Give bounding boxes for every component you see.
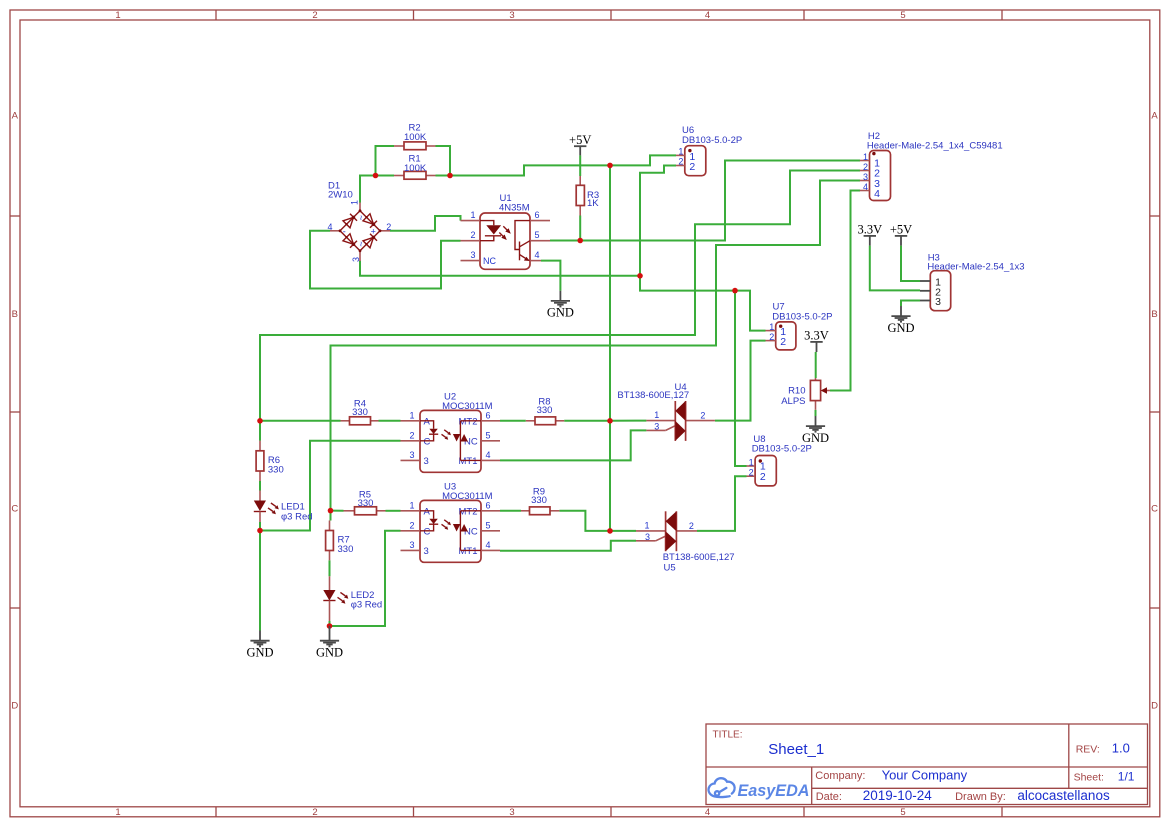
svg-text:1: 1 xyxy=(678,147,683,157)
wire U3 pin6 to R9 xyxy=(500,510,521,512)
svg-text:2W10: 2W10 xyxy=(328,190,353,201)
wire U3 pin4 to U5 gate xyxy=(500,541,636,551)
svg-text:1: 1 xyxy=(350,200,360,205)
net flag +5V (H3) xyxy=(890,223,912,246)
wire node to U5 pin1 xyxy=(610,530,636,532)
svg-text:2: 2 xyxy=(700,411,705,421)
potentiometer R10 ALPS xyxy=(781,378,830,410)
wire node to U4 pin1 xyxy=(610,420,646,422)
svg-text:330: 330 xyxy=(358,498,374,509)
wire R6 to LED1 xyxy=(259,481,261,491)
resistor R1 100K xyxy=(394,154,436,180)
wire LED2 cathode to node xyxy=(329,621,331,626)
svg-text:D: D xyxy=(11,701,18,712)
svg-text:B: B xyxy=(1151,309,1157,320)
wire H2 pin3 to left bus x=330.5 xyxy=(331,181,861,521)
wire R3 bottom to node xyxy=(579,216,581,241)
svg-text:ALPS: ALPS xyxy=(781,396,805,407)
bridge rectifier D1 2W10 xyxy=(327,180,391,262)
resistor R4 330 xyxy=(341,399,379,425)
wire node to R4 left xyxy=(260,420,341,422)
svg-text:φ3 Red: φ3 Red xyxy=(351,600,383,611)
header H3 Header-Male-2.54_1x3 xyxy=(920,252,1025,310)
svg-text:3: 3 xyxy=(424,456,429,467)
net flag 3.3V (R10) xyxy=(804,329,829,353)
svg-text:+5V: +5V xyxy=(890,223,912,237)
triac U5 BT138-600E,127 xyxy=(636,511,735,573)
svg-text:D: D xyxy=(1151,701,1158,712)
svg-text:Drawn By:: Drawn By: xyxy=(955,791,1006,803)
svg-text:φ3 Red: φ3 Red xyxy=(281,511,313,522)
svg-text:B: B xyxy=(12,309,18,320)
svg-text:100K: 100K xyxy=(404,132,427,143)
resistor R7 330 xyxy=(326,521,354,561)
svg-text:2: 2 xyxy=(689,161,695,173)
svg-text:3: 3 xyxy=(409,450,414,460)
svg-text:1: 1 xyxy=(749,457,754,467)
svg-text:2: 2 xyxy=(409,430,414,440)
svg-text:GND: GND xyxy=(246,646,273,660)
node D1 pin3 / U6 pin2 xyxy=(637,273,643,279)
EasyEDA logo xyxy=(709,778,810,800)
net flag +5V (R3) xyxy=(569,133,591,155)
header H2 Header-Male-2.54_1x4_C59481 xyxy=(860,131,1003,201)
svg-text:GND: GND xyxy=(887,321,914,335)
svg-text:2: 2 xyxy=(470,230,475,240)
svg-text:2: 2 xyxy=(312,807,317,818)
svg-text:BT138-600E,127: BT138-600E,127 xyxy=(617,390,689,401)
svg-text:3.3V: 3.3V xyxy=(804,329,829,343)
svg-text:330: 330 xyxy=(537,405,553,416)
optocoupler U3 MOC3011M xyxy=(401,482,501,563)
wire R4 right to U2 pin1 xyxy=(379,420,401,422)
svg-text:2: 2 xyxy=(769,332,774,342)
svg-text:5: 5 xyxy=(486,430,491,440)
node R3 / U1 pin5 xyxy=(577,238,583,244)
wire U1 pin4 to GND xyxy=(541,261,560,291)
svg-text:+: + xyxy=(371,226,376,236)
wire D1 pin3 to node xyxy=(360,261,640,276)
svg-text:MT1: MT1 xyxy=(459,456,478,467)
wire R5 right to U3 pin1 xyxy=(386,510,401,512)
svg-text:EasyEDA: EasyEDA xyxy=(738,782,810,800)
svg-text:1: 1 xyxy=(769,322,774,332)
svg-text:+5V: +5V xyxy=(569,133,591,147)
wire R9 to bus node xyxy=(559,511,610,531)
optocoupler U1 4N35M xyxy=(461,193,551,269)
node LED1 cathode xyxy=(257,528,263,534)
svg-text:330: 330 xyxy=(338,544,354,555)
svg-text:3: 3 xyxy=(645,532,650,542)
svg-text:MT1: MT1 xyxy=(459,546,478,557)
node R1-R2 right xyxy=(447,173,453,179)
wire R8 to bus node xyxy=(564,420,610,422)
resistor R6 330 xyxy=(256,441,284,481)
svg-text:3: 3 xyxy=(351,257,361,262)
ground GND (U1) xyxy=(547,291,574,320)
svg-text:GND: GND xyxy=(316,646,343,660)
svg-text:3: 3 xyxy=(935,296,941,308)
svg-text:DB103-5.0-2P: DB103-5.0-2P xyxy=(772,311,832,322)
svg-text:A: A xyxy=(1151,111,1158,122)
wire U2 pin6 to R8 xyxy=(500,420,526,422)
wire 3.3V flag to R10 top xyxy=(815,352,817,378)
wire U6 pin2 down to U7/U8 branch xyxy=(640,166,766,331)
wire node to U8 pin1 xyxy=(735,291,747,466)
svg-text:A: A xyxy=(12,111,19,122)
node R9 / U5 pin1 xyxy=(607,528,613,534)
svg-text:5: 5 xyxy=(486,520,491,530)
svg-text:4: 4 xyxy=(874,188,880,200)
svg-text:NC: NC xyxy=(483,256,496,266)
svg-text:2: 2 xyxy=(689,521,694,531)
svg-text:3: 3 xyxy=(409,540,414,550)
svg-text:C: C xyxy=(1151,504,1158,515)
svg-text:4N35M: 4N35M xyxy=(499,203,530,214)
svg-text:2: 2 xyxy=(863,162,868,172)
svg-text:3: 3 xyxy=(863,172,868,182)
wire U3 pin2 to LED2 cathode node xyxy=(330,531,401,626)
svg-text:1K: 1K xyxy=(587,198,599,209)
wire 3.3V flag to H3 pin2 xyxy=(870,246,920,291)
svg-text:4: 4 xyxy=(486,450,491,460)
optocoupler U2 MOC3011M xyxy=(401,392,501,473)
svg-text:C: C xyxy=(424,527,431,538)
ground GND (LED2) xyxy=(316,626,343,660)
svg-text:1: 1 xyxy=(644,521,649,531)
svg-text:330: 330 xyxy=(531,495,547,506)
svg-text:~: ~ xyxy=(356,241,366,246)
svg-text:4: 4 xyxy=(486,540,491,550)
svg-text:1: 1 xyxy=(470,210,475,220)
title block xyxy=(706,724,1148,805)
svg-text:3: 3 xyxy=(424,546,429,557)
wire U1 pin5 / R3 node to H2 pin1 xyxy=(550,161,860,241)
connector U7 DB103-5.0-2P xyxy=(766,302,833,350)
svg-text:GND: GND xyxy=(547,306,574,320)
svg-text:330: 330 xyxy=(268,464,284,475)
svg-text:alcocastellanos: alcocastellanos xyxy=(1017,788,1110,803)
wire LED1 node to GND xyxy=(259,531,261,631)
wire R10 bottom to GND xyxy=(815,410,817,416)
ground GND (R10) xyxy=(802,416,829,445)
svg-text:Sheet_1: Sheet_1 xyxy=(768,741,824,758)
svg-text:REV:: REV: xyxy=(1076,744,1100,756)
LED2 red xyxy=(323,576,382,621)
svg-text:2: 2 xyxy=(760,471,766,483)
svg-text:MT2: MT2 xyxy=(459,506,478,517)
LED1 red xyxy=(254,491,313,523)
svg-text:1: 1 xyxy=(115,10,120,21)
wire U2 pin2 to LED1 cathode node xyxy=(260,441,401,531)
svg-text:U5: U5 xyxy=(664,562,676,573)
svg-text:1: 1 xyxy=(115,807,120,818)
ground GND (LED1) xyxy=(246,631,273,660)
svg-text:2: 2 xyxy=(409,520,414,530)
svg-text:1/1: 1/1 xyxy=(1118,769,1135,783)
svg-text:1: 1 xyxy=(863,152,868,162)
svg-text:6: 6 xyxy=(486,410,491,420)
node R5 / R7 xyxy=(328,508,334,514)
node +5V rail / bus xyxy=(607,163,613,169)
wire R1 left to D1 pin1 xyxy=(360,176,394,203)
wire D1 pin2 to U1 pin1 xyxy=(390,216,461,231)
svg-text:3: 3 xyxy=(509,10,514,21)
svg-text:4: 4 xyxy=(705,807,710,818)
resistor R5 330 xyxy=(344,490,386,515)
svg-text:Header-Male-2.54_1x4_C59481: Header-Male-2.54_1x4_C59481 xyxy=(867,140,1003,151)
wire H2 pin2 to left bus x=260 xyxy=(260,171,860,441)
svg-text:2: 2 xyxy=(386,222,391,232)
svg-text:2: 2 xyxy=(312,10,317,21)
wire R2 right down to R1 right node xyxy=(436,146,451,176)
svg-text:GND: GND xyxy=(802,431,829,445)
svg-text:1: 1 xyxy=(409,500,414,510)
svg-text:2: 2 xyxy=(780,336,786,348)
JUNCTION DOTS xyxy=(257,163,738,629)
resistor R8 330 xyxy=(526,397,564,425)
svg-text:1: 1 xyxy=(654,410,659,420)
svg-text:2: 2 xyxy=(749,467,754,477)
wire U2 pin4 to U4 gate xyxy=(500,430,646,460)
wire node to R5 left xyxy=(331,510,344,512)
wire +5V flag to H3 pin1 xyxy=(901,246,920,281)
wire R7 to LED2 xyxy=(329,560,331,576)
resistor R3 1K xyxy=(576,176,599,216)
svg-text:4: 4 xyxy=(863,182,868,192)
svg-text:3.3V: 3.3V xyxy=(857,223,882,237)
resistor R9 330 xyxy=(521,487,559,515)
svg-text:1: 1 xyxy=(409,410,414,420)
svg-text:4: 4 xyxy=(705,10,710,21)
svg-text:3: 3 xyxy=(654,422,659,432)
svg-text:-: - xyxy=(343,226,346,236)
svg-text:DB103-5.0-2P: DB103-5.0-2P xyxy=(752,444,812,455)
svg-text:Date:: Date: xyxy=(816,791,842,803)
svg-text:1.0: 1.0 xyxy=(1112,741,1130,756)
resistor R2 100K xyxy=(394,123,436,150)
wire U7 pin2 to U4 pin2 xyxy=(715,341,766,421)
svg-text:6: 6 xyxy=(486,500,491,510)
svg-text:330: 330 xyxy=(352,407,368,418)
svg-text:A: A xyxy=(424,417,431,428)
svg-text:Company:: Company: xyxy=(815,770,865,782)
svg-text:TITLE:: TITLE: xyxy=(713,730,743,741)
svg-text:100K: 100K xyxy=(404,163,427,174)
svg-text:4: 4 xyxy=(327,222,332,232)
svg-text:3: 3 xyxy=(509,807,514,818)
node LED2 cathode xyxy=(327,623,333,629)
wire R2 left to R1 left node xyxy=(376,146,395,176)
node R8 / U4 pin1 xyxy=(607,418,613,424)
svg-text:5: 5 xyxy=(900,807,905,818)
svg-text:Your Company: Your Company xyxy=(882,768,968,783)
svg-text:4: 4 xyxy=(535,250,540,260)
connector U8 DB103-5.0-2P xyxy=(747,434,812,486)
svg-text:2019-10-24: 2019-10-24 xyxy=(863,788,933,803)
svg-text:A: A xyxy=(424,507,431,518)
triac U4 BT138-600E,127 xyxy=(617,382,715,441)
svg-text:C: C xyxy=(11,504,18,515)
ground GND (H3) xyxy=(887,306,914,335)
wire R1 right node to U6 pin1 (+5V rail) xyxy=(436,155,677,175)
svg-text:3: 3 xyxy=(470,250,475,260)
svg-text:Sheet:: Sheet: xyxy=(1074,772,1104,784)
svg-text:5: 5 xyxy=(535,230,540,240)
wire long vertical bus x=610 xyxy=(609,165,611,531)
wire U8 pin2 to U5 pin2 xyxy=(697,476,747,531)
svg-text:2: 2 xyxy=(678,157,683,167)
connector U6 DB103-5.0-2P xyxy=(676,125,742,176)
wire D1 pin4 to U1 pin2 xyxy=(310,231,461,289)
node R1-R2 left xyxy=(373,173,379,179)
svg-text:6: 6 xyxy=(535,210,540,220)
wire H2 pin4 to R10 wiper xyxy=(830,191,860,391)
wire H3 pin3 to GND xyxy=(901,301,920,307)
node U8 branch xyxy=(732,288,738,294)
svg-text:C: C xyxy=(424,437,431,448)
svg-text:DB103-5.0-2P: DB103-5.0-2P xyxy=(682,135,742,146)
wire +5V flag to R3 top xyxy=(579,155,581,176)
net flag 3.3V (H3) xyxy=(857,223,882,246)
svg-text:~: ~ xyxy=(356,215,366,220)
svg-text:MT2: MT2 xyxy=(459,416,478,427)
wire LED1 cathode to node xyxy=(259,522,261,531)
svg-text:5: 5 xyxy=(900,10,905,21)
node R4 / R6 xyxy=(257,418,263,424)
